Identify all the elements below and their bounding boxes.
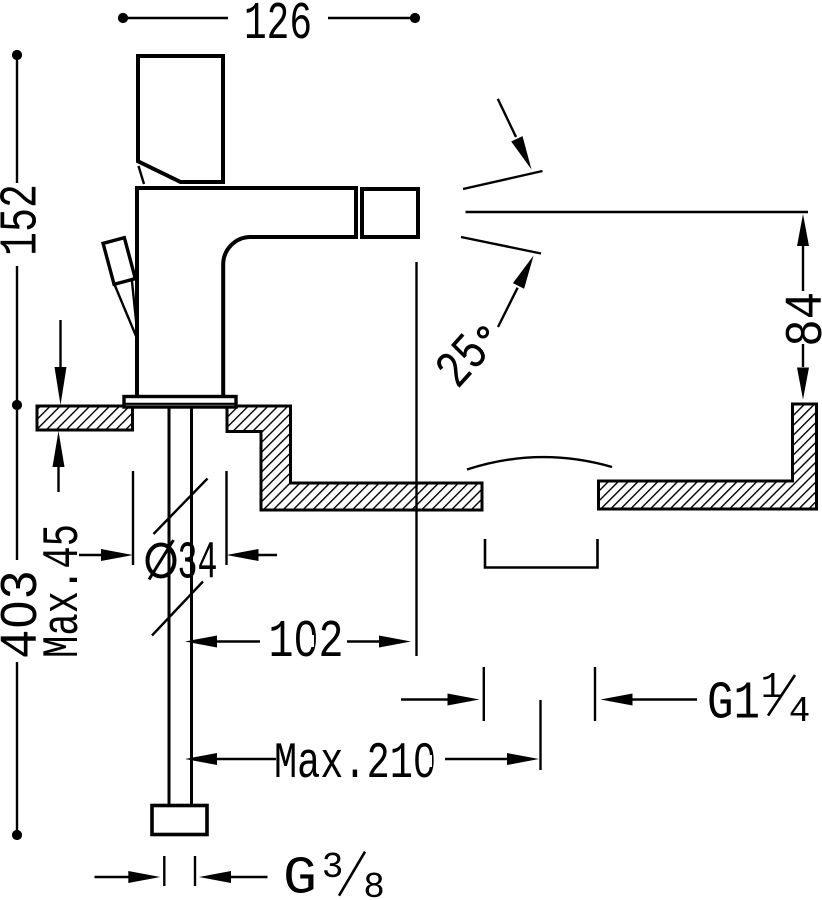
svg-text:Max.210: Max.210 [274, 736, 436, 793]
svg-text:34: 34 [178, 534, 218, 594]
svg-text:G: G [283, 849, 317, 900]
svg-text:Max.45: Max.45 [36, 524, 93, 658]
svg-text:1: 1 [761, 667, 783, 708]
svg-text:126: 126 [244, 0, 312, 54]
svg-text:8: 8 [363, 867, 385, 900]
svg-text:3: 3 [322, 847, 344, 888]
svg-text:G1: G1 [707, 674, 760, 734]
svg-text:84: 84 [777, 292, 822, 347]
svg-text:4: 4 [789, 691, 811, 732]
svg-text:152: 152 [0, 184, 52, 256]
